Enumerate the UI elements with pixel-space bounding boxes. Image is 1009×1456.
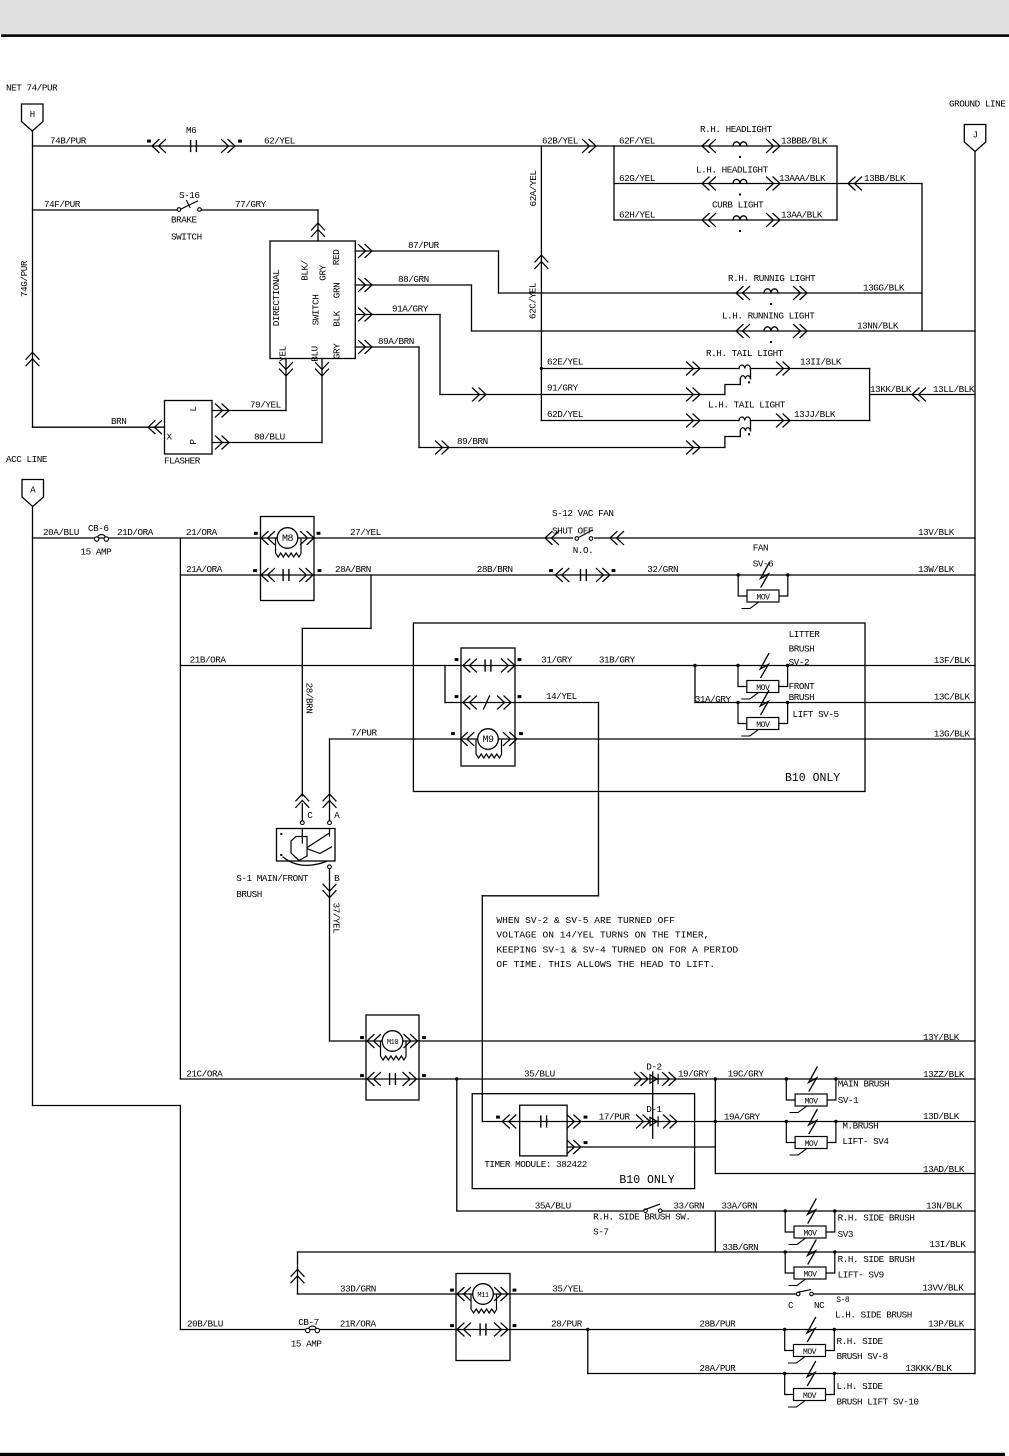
svg-text:M6: M6 — [186, 125, 196, 136]
svg-text:L.H. HEADLIGHT: L.H. HEADLIGHT — [696, 165, 769, 176]
svg-text:M.BRUSH: M.BRUSH — [842, 1121, 878, 1132]
svg-text:13F/BLK: 13F/BLK — [934, 655, 971, 666]
svg-text:15 AMP: 15 AMP — [291, 1339, 323, 1350]
svg-text:CB-6: CB-6 — [88, 523, 109, 534]
svg-text:87/PUR: 87/PUR — [408, 240, 440, 251]
svg-text:P: P — [188, 439, 199, 445]
svg-text:SV-6: SV-6 — [753, 559, 774, 570]
svg-text:D-1: D-1 — [646, 1104, 662, 1115]
svg-text:91/GRY: 91/GRY — [547, 383, 579, 394]
svg-text:13V/BLK: 13V/BLK — [918, 527, 955, 538]
svg-text:DIRECTIONAL: DIRECTIONAL — [271, 270, 282, 326]
svg-text:13BB/BLK: 13BB/BLK — [864, 173, 906, 184]
svg-text:28A/BRN: 28A/BRN — [335, 564, 371, 575]
svg-text:M8: M8 — [282, 534, 294, 545]
svg-text:74F/PUR: 74F/PUR — [44, 199, 81, 210]
svg-text:62/YEL: 62/YEL — [264, 136, 295, 147]
svg-text:35/YEL: 35/YEL — [552, 1284, 583, 1295]
svg-text:13KKK/BLK: 13KKK/BLK — [905, 1363, 952, 1374]
svg-text:R.H. SIDE BRUSH: R.H. SIDE BRUSH — [838, 1254, 915, 1265]
svg-text:S-1 MAIN/FRONT: S-1 MAIN/FRONT — [236, 873, 309, 884]
svg-text:89/BRN: 89/BRN — [457, 436, 488, 447]
svg-text:LIFT- SV4: LIFT- SV4 — [842, 1136, 889, 1147]
svg-text:FRONT: FRONT — [789, 681, 816, 692]
svg-text:62A/YEL: 62A/YEL — [528, 171, 539, 207]
svg-text:S-12 VAC FAN: S-12 VAC FAN — [552, 508, 614, 519]
svg-text:MOV: MOV — [803, 1348, 817, 1357]
svg-text:SV-1: SV-1 — [838, 1095, 859, 1106]
svg-text:33D/GRN: 33D/GRN — [340, 1284, 376, 1295]
svg-text:14/YEL: 14/YEL — [546, 691, 577, 702]
svg-text:GRN: GRN — [332, 283, 343, 298]
svg-text:FAN: FAN — [753, 543, 768, 554]
svg-text:7/PUR: 7/PUR — [351, 728, 378, 739]
svg-text:VOLTAGE ON 14/YEL TURNS ON THE: VOLTAGE ON 14/YEL TURNS ON THE TIMER, — [496, 930, 709, 941]
svg-text:74G/PUR: 74G/PUR — [19, 260, 30, 297]
svg-text:BRUSH: BRUSH — [789, 644, 815, 655]
svg-text:B10 ONLY: B10 ONLY — [785, 772, 840, 785]
svg-text:31A/GRY: 31A/GRY — [695, 694, 732, 705]
svg-text:27/YEL: 27/YEL — [350, 527, 381, 538]
svg-text:RED: RED — [331, 249, 342, 265]
svg-text:BRUSH: BRUSH — [236, 889, 262, 900]
svg-text:R.H. SIDE BRUSH: R.H. SIDE BRUSH — [838, 1213, 915, 1224]
svg-text:13AAA/BLK: 13AAA/BLK — [779, 173, 826, 184]
svg-text:R.H. SIDE: R.H. SIDE — [837, 1336, 884, 1347]
svg-text:OF TIME. THIS ALLOWS THE HEAD: OF TIME. THIS ALLOWS THE HEAD TO LIFT. — [496, 959, 715, 970]
svg-text:88/GRN: 88/GRN — [398, 274, 429, 285]
svg-text:KEEPING SV-1 & SV-4 TURNED ON: KEEPING SV-1 & SV-4 TURNED ON FOR A PERI… — [496, 944, 738, 955]
svg-text:28B/PUR: 28B/PUR — [699, 1319, 736, 1330]
svg-text:91A/GRY: 91A/GRY — [392, 304, 429, 315]
svg-text:LIFT SV-5: LIFT SV-5 — [793, 709, 839, 720]
svg-text:R.H. HEADLIGHT: R.H. HEADLIGHT — [700, 124, 773, 135]
svg-text:D-2: D-2 — [646, 1062, 661, 1073]
svg-text:L.H. SIDE: L.H. SIDE — [837, 1381, 884, 1392]
svg-text:13KK/BLK: 13KK/BLK — [870, 384, 912, 395]
svg-text:BRAKE: BRAKE — [171, 215, 198, 226]
svg-text:21A/ORA: 21A/ORA — [186, 564, 223, 575]
svg-text:R.H. RUNNIG LIGHT: R.H. RUNNIG LIGHT — [728, 273, 816, 284]
svg-text:13D/BLK: 13D/BLK — [923, 1111, 960, 1122]
svg-text:62D/YEL: 62D/YEL — [547, 409, 583, 420]
svg-text:62H/YEL: 62H/YEL — [619, 210, 655, 221]
svg-text:35/BLU: 35/BLU — [524, 1069, 555, 1080]
svg-text:ACC LINE: ACC LINE — [6, 454, 48, 465]
svg-text:M10: M10 — [387, 1039, 399, 1047]
svg-text:28B/BRN: 28B/BRN — [477, 564, 513, 575]
svg-text:LITTER: LITTER — [789, 629, 821, 640]
svg-text:19A/GRY: 19A/GRY — [724, 1112, 761, 1123]
svg-text:A: A — [334, 810, 340, 821]
svg-text:19C/GRY: 19C/GRY — [728, 1069, 765, 1080]
svg-text:MOV: MOV — [756, 594, 770, 603]
svg-text:SV3: SV3 — [838, 1229, 853, 1240]
svg-text:SV-2: SV-2 — [789, 657, 810, 668]
svg-text:33A/GRN: 33A/GRN — [721, 1201, 757, 1212]
svg-text:13JJ/BLK: 13JJ/BLK — [794, 409, 836, 420]
svg-text:L.H. SIDE BRUSH: L.H. SIDE BRUSH — [835, 1310, 912, 1321]
svg-text:80/BLU: 80/BLU — [254, 432, 285, 443]
svg-text:62F/YEL: 62F/YEL — [619, 136, 655, 147]
svg-text:MAIN BRUSH: MAIN BRUSH — [838, 1079, 889, 1090]
svg-text:62C/YEL: 62C/YEL — [528, 283, 539, 319]
svg-text:C: C — [788, 1300, 794, 1311]
svg-text:YEL: YEL — [278, 346, 289, 361]
svg-text:B10 ONLY: B10 ONLY — [619, 1174, 674, 1187]
svg-text:WHEN SV-2 & SV-5 ARE TURNED OF: WHEN SV-2 & SV-5 ARE TURNED OFF — [496, 915, 675, 926]
svg-text:20B/BLU: 20B/BLU — [187, 1319, 223, 1330]
svg-text:13ZZ/BLK: 13ZZ/BLK — [923, 1069, 965, 1080]
svg-text:15 AMP: 15 AMP — [81, 547, 113, 558]
svg-text:S-8: S-8 — [836, 1296, 850, 1305]
svg-text:13VV/BLK: 13VV/BLK — [922, 1283, 964, 1294]
svg-text:L: L — [188, 406, 199, 411]
svg-text:33/GRN: 33/GRN — [673, 1201, 704, 1212]
svg-text:X: X — [167, 432, 173, 443]
svg-text:13AA/BLK: 13AA/BLK — [781, 210, 823, 221]
svg-text:13NN/BLK: 13NN/BLK — [857, 321, 899, 332]
svg-text:28A/PUR: 28A/PUR — [699, 1363, 736, 1374]
svg-text:BLK: BLK — [332, 310, 343, 326]
svg-text:SWITCH: SWITCH — [311, 295, 322, 326]
svg-text:33B/GRN: 33B/GRN — [722, 1242, 758, 1253]
svg-text:62G/YEL: 62G/YEL — [619, 173, 655, 184]
svg-text:MOV: MOV — [805, 1098, 819, 1107]
svg-text:CB-7: CB-7 — [298, 1317, 319, 1328]
svg-text:74B/PUR: 74B/PUR — [50, 136, 87, 147]
svg-text:SWITCH: SWITCH — [171, 232, 202, 243]
svg-text:13GG/BLK: 13GG/BLK — [863, 283, 905, 294]
svg-text:62E/YEL: 62E/YEL — [547, 357, 583, 368]
svg-text:M11: M11 — [477, 1292, 489, 1300]
svg-text:NC: NC — [814, 1300, 825, 1311]
svg-text:21D/ORA: 21D/ORA — [117, 527, 154, 538]
svg-text:R.H. TAIL LIGHT: R.H. TAIL LIGHT — [706, 348, 784, 359]
svg-text:21/ORA: 21/ORA — [186, 527, 218, 538]
svg-text:37/YEL: 37/YEL — [331, 903, 342, 934]
svg-text:BRUSH LIFT SV-10: BRUSH LIFT SV-10 — [837, 1397, 919, 1408]
svg-text:M9: M9 — [482, 735, 494, 746]
svg-text:13II/BLK: 13II/BLK — [800, 357, 842, 368]
svg-text:C: C — [307, 810, 313, 821]
svg-text:BRN: BRN — [111, 416, 126, 427]
svg-text:MOV: MOV — [805, 1140, 819, 1149]
svg-text:77/GRY: 77/GRY — [235, 199, 267, 210]
svg-text:79/YEL: 79/YEL — [250, 400, 281, 411]
svg-text:13P/BLK: 13P/BLK — [928, 1319, 965, 1330]
svg-text:13N/BLK: 13N/BLK — [926, 1201, 963, 1212]
svg-text:GRY: GRY — [318, 264, 329, 280]
svg-text:21C/ORA: 21C/ORA — [186, 1069, 223, 1080]
svg-text:BRUSH: BRUSH — [789, 692, 815, 703]
svg-text:MOV: MOV — [803, 1392, 817, 1401]
svg-text:13Y/BLK: 13Y/BLK — [923, 1032, 960, 1043]
svg-text:MOV: MOV — [803, 1230, 817, 1239]
svg-text:13C/BLK: 13C/BLK — [934, 692, 971, 703]
svg-text:BLU: BLU — [310, 346, 321, 361]
svg-text:L.H. RUNNING LIGHT: L.H. RUNNING LIGHT — [722, 311, 815, 322]
svg-text:B: B — [334, 873, 340, 884]
svg-text:31/GRY: 31/GRY — [541, 655, 573, 666]
svg-text:13AD/BLK: 13AD/BLK — [923, 1164, 965, 1175]
svg-text:20A/BLU: 20A/BLU — [43, 527, 79, 538]
svg-text:H: H — [30, 110, 35, 120]
svg-text:BLK/: BLK/ — [300, 259, 311, 280]
svg-text:R.H. SIDE BRUSH SW.: R.H. SIDE BRUSH SW. — [593, 1212, 690, 1223]
svg-text:13LL/BLK: 13LL/BLK — [933, 384, 975, 395]
svg-text:L.H. TAIL LIGHT: L.H. TAIL LIGHT — [708, 400, 786, 411]
svg-text:FLASHER: FLASHER — [164, 456, 201, 467]
svg-text:89A/BRN: 89A/BRN — [378, 336, 414, 347]
svg-text:17/PUR: 17/PUR — [599, 1112, 631, 1123]
svg-text:13I/BLK: 13I/BLK — [930, 1239, 967, 1250]
svg-text:TIMER MODULE: 382422: TIMER MODULE: 382422 — [484, 1159, 587, 1170]
svg-text:J: J — [973, 131, 978, 141]
svg-text:28/PUR: 28/PUR — [551, 1319, 583, 1330]
svg-text:MOV: MOV — [756, 721, 770, 730]
svg-text:21R/ORA: 21R/ORA — [340, 1319, 377, 1330]
svg-text:NET 74/PUR: NET 74/PUR — [6, 83, 58, 94]
svg-text:S-7: S-7 — [593, 1227, 608, 1238]
svg-text:62B/YEL: 62B/YEL — [542, 136, 578, 147]
svg-text:GRY: GRY — [332, 343, 343, 359]
svg-text:19/GRY: 19/GRY — [678, 1069, 710, 1080]
svg-text:21B/ORA: 21B/ORA — [190, 655, 227, 666]
svg-text:32/GRN: 32/GRN — [647, 564, 678, 575]
svg-text:35A/BLU: 35A/BLU — [535, 1201, 571, 1212]
svg-text:S-16: S-16 — [179, 190, 200, 201]
svg-text:A: A — [30, 486, 36, 496]
svg-text:GROUND LINE: GROUND LINE — [949, 99, 1006, 110]
svg-text:MOV: MOV — [803, 1271, 817, 1280]
svg-text:CURB LIGHT: CURB LIGHT — [712, 200, 764, 211]
svg-text:13BBB/BLK: 13BBB/BLK — [781, 136, 828, 147]
svg-text:N.O.: N.O. — [573, 545, 594, 556]
svg-text:31B/GRY: 31B/GRY — [599, 655, 636, 666]
svg-text:28/BRN: 28/BRN — [304, 683, 315, 714]
svg-text:BRUSH SV-8: BRUSH SV-8 — [837, 1351, 888, 1362]
svg-text:LIFT- SV9: LIFT- SV9 — [838, 1270, 884, 1281]
svg-text:13G/BLK: 13G/BLK — [934, 729, 971, 740]
svg-text:13W/BLK: 13W/BLK — [918, 564, 955, 575]
